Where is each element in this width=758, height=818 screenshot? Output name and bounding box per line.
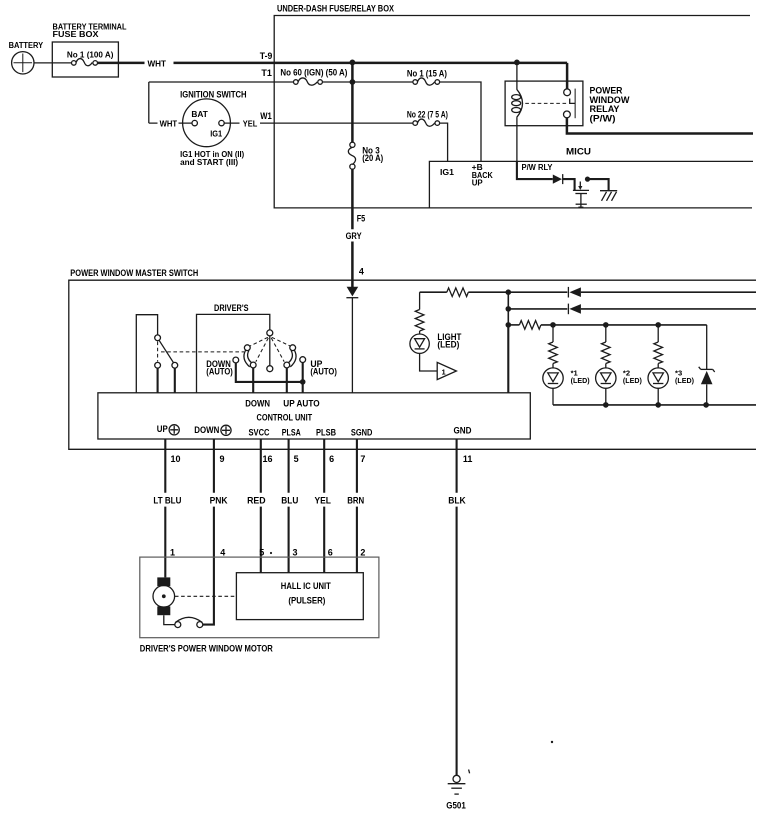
wire YEL from IG1 to W1 row [224, 122, 413, 124]
svg-text:UP: UP [157, 424, 168, 434]
motor M1 [153, 586, 175, 608]
svg-text:POWER WINDOW MASTER SWITCH: POWER WINDOW MASTER SWITCH [70, 268, 198, 278]
transistor Q1 arrow [579, 182, 581, 187]
svg-text:(AUTO): (AUTO) [206, 366, 233, 376]
LED *3 chain [657, 325, 659, 342]
resistor R3 [415, 310, 424, 332]
svg-text:(LED): (LED) [623, 376, 642, 385]
diode D2 row A [567, 287, 569, 298]
wire DOWN(AUTO)/UP(AUTO) tie [236, 363, 303, 382]
wire WHT to BAT terminal [149, 122, 192, 124]
control unit box [98, 393, 530, 439]
svg-text:PLSB: PLSB [316, 427, 336, 437]
svg-text:BATTERY: BATTERY [9, 41, 44, 50]
svg-text:GRY: GRY [346, 231, 362, 241]
svg-text:(AUTO): (AUTO) [310, 366, 337, 376]
node drain junction [585, 177, 590, 182]
node row A junction [506, 289, 512, 295]
svg-text:(LED): (LED) [675, 376, 694, 385]
LIGHT (LED) [410, 334, 429, 353]
driver's switch bracket [197, 314, 270, 392]
power window master switch box [69, 280, 756, 449]
fuse No 60 (IGN) (50 A) [294, 80, 299, 85]
power window relay box [505, 81, 583, 126]
wire P/W RLY trace [517, 161, 553, 179]
lock switch contacts [155, 362, 161, 368]
svg-text:UP: UP [472, 179, 484, 188]
svg-text:BAT: BAT [191, 110, 208, 119]
svg-text:T1: T1 [261, 68, 272, 78]
node tie junction [300, 379, 306, 385]
svg-text:and START (III): and START (III) [180, 158, 238, 167]
wires lock switch to control unit [158, 368, 175, 393]
svg-text:RED: RED [247, 496, 266, 506]
svg-text:HALL IC UNIT: HALL IC UNIT [281, 581, 331, 591]
relay contact blade [574, 89, 576, 119]
svg-text:CONTROL UNIT: CONTROL UNIT [257, 413, 313, 423]
chassis ground (hatched) [600, 190, 617, 192]
svg-text:(20 A): (20 A) [362, 153, 383, 163]
wire battery to fuse box [34, 62, 72, 64]
svg-text:PNK: PNK [210, 496, 228, 506]
svg-text:WHT: WHT [160, 120, 178, 129]
wire WHT main feed to T-9 [98, 62, 568, 65]
LED return bus [553, 404, 756, 406]
ignition switch [183, 99, 231, 147]
svg-text:GND: GND [454, 425, 472, 435]
pin 6 wire YEL [323, 439, 325, 573]
relay coil [517, 89, 523, 118]
svg-text:DOWN: DOWN [245, 399, 270, 409]
svg-text:BRN: BRN [347, 496, 364, 506]
wire relay output [567, 118, 753, 134]
svg-text:DRIVER'S POWER WINDOW MOTOR: DRIVER'S POWER WINDOW MOTOR [140, 644, 273, 654]
wire DOWN contact to control unit [252, 368, 254, 393]
svg-text:4: 4 [359, 266, 364, 276]
lock switch blade [159, 340, 173, 362]
svg-text:PLSA: PLSA [282, 427, 301, 437]
limit switch contacts [175, 622, 181, 628]
transistor Q1 channel [575, 193, 587, 195]
transistor Q1 gate bar [573, 189, 589, 191]
svg-text:No 60 (IGN) (50 A): No 60 (IGN) (50 A) [280, 67, 347, 77]
svg-text:UNDER-DASH FUSE/RELAY BOX: UNDER-DASH FUSE/RELAY BOX [277, 4, 394, 14]
svg-text:3: 3 [293, 548, 298, 558]
MICU box [429, 161, 753, 208]
svg-text:5: 5 [259, 548, 264, 558]
node row B junction [506, 306, 512, 312]
dashed link to driver's switch [161, 351, 244, 353]
wire row C [508, 324, 519, 326]
node row C junction [506, 322, 512, 328]
ground G501 [453, 775, 460, 782]
svg-text:T-9: T-9 [260, 51, 273, 61]
svg-text:BLU: BLU [281, 496, 298, 506]
terminal BAT [192, 120, 197, 125]
svg-text:WHT: WHT [148, 59, 167, 68]
fuse No 22 (7 5 A) [413, 121, 418, 126]
fuse No 3 (20 A) [350, 142, 355, 147]
pin 10 wire LT BLU [164, 439, 166, 577]
svg-text:No 1 (15 A): No 1 (15 A) [407, 68, 447, 78]
resistor R1 [447, 288, 469, 297]
svg-text:G501: G501 [446, 801, 466, 811]
wire LED feed to control unit [507, 325, 509, 393]
svg-text:(PULSER): (PULSER) [288, 596, 325, 606]
svg-text:2: 2 [360, 548, 365, 558]
node T1/battery bus junction [350, 79, 356, 85]
driver's power window motor box [140, 557, 379, 638]
terminal IG1 [219, 120, 224, 125]
svg-text:IGNITION SWITCH: IGNITION SWITCH [180, 90, 247, 100]
svg-text:YEL: YEL [315, 496, 332, 506]
wire coil to MICU P/W RLY [516, 118, 518, 162]
buffer amp 1 [437, 362, 456, 379]
wire row A to diode [468, 291, 567, 293]
svg-text:W1: W1 [260, 111, 272, 121]
svg-text:1: 1 [170, 548, 175, 558]
wire No1 fuse to +B BACK UP [440, 82, 481, 161]
connector 4 diode into master switch [347, 287, 359, 297]
scan tick [469, 770, 470, 774]
svg-text:LT BLU: LT BLU [153, 496, 181, 506]
svg-text:YEL: YEL [243, 120, 258, 129]
wire UP AUTO contact to control unit [286, 368, 288, 393]
pin 7 wire BRN [356, 439, 358, 573]
fuse No 1 (15 A) [413, 80, 418, 85]
wire coil feed [516, 62, 518, 89]
contact arc left [244, 350, 250, 367]
diode D1 (MICU) [553, 175, 562, 184]
wire F5 GRY vertical [351, 169, 354, 287]
svg-text:DOWN: DOWN [194, 425, 219, 435]
driver's switch pivot [267, 330, 273, 336]
motor M1 brush top [157, 577, 170, 586]
svg-text:10: 10 [171, 454, 181, 464]
wire UP(AUTO) to control unit [302, 363, 304, 393]
lock switch pivot contact [155, 335, 161, 341]
svg-text:6: 6 [328, 548, 333, 558]
wire No22 fuse to MICU IG1 [440, 123, 448, 161]
wire T1 drop to ignition [148, 82, 150, 123]
resistor R2 [519, 321, 540, 330]
wire motor to limit contacts [164, 615, 175, 624]
wire drain to chassis ground [588, 179, 609, 190]
pin 16 wire RED [260, 439, 262, 573]
svg-text:9: 9 [220, 454, 225, 464]
pin 5 wire BLU [288, 439, 290, 573]
svg-text:SGND: SGND [351, 427, 373, 437]
LED *1 chain [552, 325, 554, 342]
zener diode Z1 [706, 325, 708, 369]
relay dashed link [525, 102, 567, 104]
wire row B [508, 308, 567, 310]
dashed motor to pulser link [175, 595, 237, 597]
light LED chain: wire down [419, 292, 421, 309]
svg-text:6: 6 [329, 454, 334, 464]
svg-text:IG1: IG1 [440, 168, 455, 177]
fuse No 1 (100 A) [72, 61, 77, 66]
node: relay coil feed junction [514, 60, 520, 66]
hall IC unit box [236, 573, 363, 620]
svg-text:MICU: MICU [566, 147, 591, 157]
node: main bus junction [350, 60, 356, 66]
svg-text:P/W RLY: P/W RLY [522, 163, 554, 172]
motor M1 brush bottom [157, 606, 170, 615]
pin 9 wire PNK [203, 439, 214, 625]
driver's switch contacts [244, 345, 250, 351]
battery terminal fuse box [52, 42, 118, 77]
svg-text:7: 7 [360, 454, 365, 464]
main vertical bus to No 3 fuse [351, 62, 354, 142]
battery B1 [12, 52, 34, 74]
scan speck [551, 741, 553, 743]
dashed rays driver's switch [250, 337, 268, 346]
diode D3 row B [567, 304, 569, 315]
contact arc right [290, 350, 296, 367]
svg-text:(LED): (LED) [571, 376, 590, 385]
svg-text:UP AUTO: UP AUTO [283, 399, 319, 409]
wire LED to amp symbol [420, 353, 438, 371]
svg-text:No 22 (7 5 A): No 22 (7 5 A) [407, 110, 448, 120]
wire relay contact feed (down) [566, 63, 569, 89]
svg-text:SVCC: SVCC [249, 427, 270, 437]
pin 11 wire BLK [456, 439, 458, 775]
dashed link lock switch [157, 342, 159, 362]
wire light feed row A left [420, 291, 447, 293]
under-dash fuse/relay box [274, 16, 752, 208]
terminal T1 wire row [149, 81, 413, 83]
svg-text:F5: F5 [357, 214, 366, 224]
svg-text:No 1 (100 A): No 1 (100 A) [67, 51, 114, 60]
driver's switch stem [269, 336, 271, 366]
svg-text:16: 16 [263, 454, 273, 464]
vertical LED feed bus [507, 292, 509, 325]
lock switch bracket [136, 315, 157, 393]
LED *2 chain [605, 325, 607, 342]
relay contact terminals [564, 89, 571, 96]
svg-text:11: 11 [463, 454, 473, 464]
svg-text:FUSE BOX: FUSE BOX [53, 30, 100, 39]
svg-text:5: 5 [294, 454, 299, 464]
svg-text:IG1: IG1 [210, 129, 223, 138]
svg-text:(P/W): (P/W) [590, 113, 616, 123]
svg-text:DRIVER'S: DRIVER'S [214, 303, 249, 313]
limit switch arc [175, 617, 202, 622]
svg-text:4: 4 [220, 548, 225, 558]
transistor Q1 source lead [580, 194, 582, 205]
svg-text:BLK: BLK [448, 496, 466, 506]
svg-text:(LED): (LED) [437, 340, 459, 350]
